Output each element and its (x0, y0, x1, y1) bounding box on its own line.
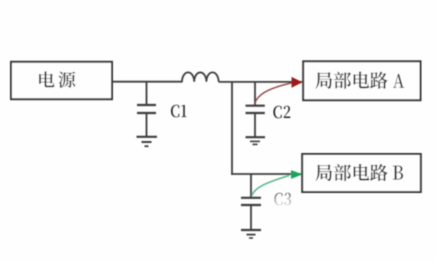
label 局部电路 B (315, 164, 403, 181)
local circuit A box (303, 61, 420, 100)
label 电源 (39, 71, 75, 87)
label 局部电路 A (315, 72, 404, 89)
wire: branch to local circuit B (231, 173, 301, 175)
ground (below C3) (241, 230, 261, 238)
inductor L (3 humps) (182, 72, 219, 81)
wire: C2 to ground (254, 113, 256, 137)
wire: vertical from top node down to branch B (231, 82, 233, 175)
capacitor C3 plates (241, 198, 261, 205)
wire: power box to inductor (112, 81, 183, 83)
local circuit B box (302, 154, 421, 192)
label C1 (171, 105, 187, 118)
wire: C1 to ground (146, 113, 148, 137)
label C3 (faded) (274, 193, 291, 206)
wire: C3 to ground (250, 205, 252, 230)
green annotation arrow: C3 node to circuit B (252, 170, 303, 196)
capacitor C2 plates (246, 106, 265, 113)
label C2 (273, 106, 290, 119)
red annotation arrow: C2 node to circuit A (255, 77, 303, 104)
wire: C1 junction lead (146, 82, 148, 105)
wire: inductor to local circuit A (219, 81, 302, 83)
wire: C3 junction lead (250, 174, 252, 197)
capacitor C1 plates (137, 105, 156, 113)
ground (below C1) (137, 137, 158, 146)
ground (below C2) (246, 137, 266, 144)
wire: C2 junction lead (254, 82, 256, 105)
power source box (电源) (11, 62, 112, 99)
